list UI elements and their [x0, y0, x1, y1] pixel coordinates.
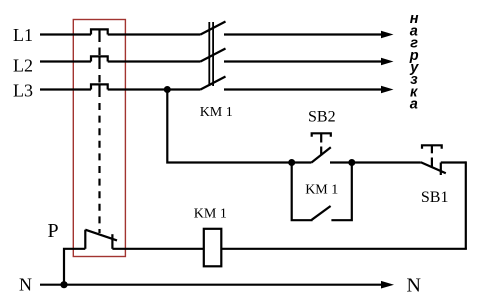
pushbutton SB2 label [308, 108, 336, 125]
wire L1 middle segment [108, 33, 201, 35]
svg-text:KM 1: KM 1 [194, 207, 227, 222]
node L3 label [13, 81, 33, 101]
thermal relay P NC contact right terminal [111, 234, 113, 249]
svg-text:L3: L3 [13, 81, 33, 101]
wire L3 middle segment [108, 88, 201, 90]
pushbutton SB1 fixed terminal [440, 163, 442, 176]
thermal relay P contact label [48, 220, 59, 242]
contactor KM1 main contact pole 1 [201, 22, 226, 35]
pushbutton SB2 actuator stem [320, 133, 322, 142]
wire L2 middle segment [108, 60, 201, 62]
wire L1 left segment [40, 33, 91, 35]
thermal element KK heater L1 [91, 29, 108, 34]
wire N line with arrow [40, 284, 383, 286]
wire right rail down [465, 161, 467, 248]
junction on L3 to control circuit [164, 86, 171, 93]
wire L2 left segment [40, 60, 91, 62]
wire SB2 to SB1 [330, 161, 421, 163]
thermal relay P NC contact arm [85, 230, 117, 241]
pushbutton SB1 label [421, 189, 449, 206]
svg-text:N: N [19, 275, 32, 295]
wire coil to thermal contact [112, 248, 203, 250]
thermal element KK heater L2 [91, 56, 108, 61]
node junction dot left of KM1 aux [288, 159, 295, 166]
wire L3 right segment with arrow to load [224, 88, 383, 90]
node L2 label [13, 55, 33, 75]
wire SB1 to right rail [441, 161, 466, 163]
thermal relay P boundary (red dashed box) [73, 20, 125, 257]
svg-text:L1: L1 [13, 25, 33, 45]
contactor KM1 main contact pole 2 [201, 49, 226, 62]
svg-text:N: N [407, 275, 421, 297]
svg-text:P: P [48, 220, 59, 242]
contactor KM1 main contacts label [200, 105, 233, 120]
pushbutton SB2 actuator cap [312, 133, 331, 137]
wire L3 left segment [40, 88, 91, 90]
svg-text:KM 1: KM 1 [200, 105, 233, 120]
wire from L3 junction down to control circuit [167, 90, 311, 163]
load label "нагрузка" vertical [409, 11, 420, 112]
wire L1 right segment with arrow to load [224, 33, 383, 35]
thermal relay P NC contact left terminal [84, 230, 86, 249]
node L1 label [13, 25, 33, 45]
svg-text:KM 1: KM 1 [305, 183, 338, 198]
wire L2 right segment with arrow to load [224, 60, 383, 62]
svg-text:а: а [410, 97, 418, 113]
node N label left [19, 275, 32, 295]
thermal relay mechanical dashed link [98, 48, 100, 56]
svg-text:L2: L2 [13, 55, 33, 75]
contactor coil KM1 label [194, 207, 227, 222]
pushbutton SB1 actuator stem [431, 145, 433, 153]
contactor KM1 auxiliary contact label [305, 183, 338, 198]
svg-text:SB1: SB1 [421, 189, 449, 206]
contactor KM1 auxiliary holding contact branch [292, 163, 313, 221]
node N label right [407, 275, 421, 297]
pushbutton SB1 actuator cap [422, 145, 442, 149]
pushbutton SB1 NC contact arm [421, 162, 446, 173]
junction on N line [60, 281, 67, 288]
contactor KM1 main contact pole 3 [201, 77, 226, 90]
wire P contact to N rail [64, 249, 85, 285]
thermal element KK heater L3 [91, 84, 108, 89]
contactor KM1 mechanical linkage [208, 22, 210, 86]
pushbutton SB2 NO contact [312, 147, 331, 162]
contactor coil KM1 [204, 229, 222, 266]
svg-text:SB2: SB2 [308, 108, 336, 125]
wire bottom rail to coil [221, 248, 467, 250]
node junction dot right of KM1 aux [348, 159, 355, 166]
